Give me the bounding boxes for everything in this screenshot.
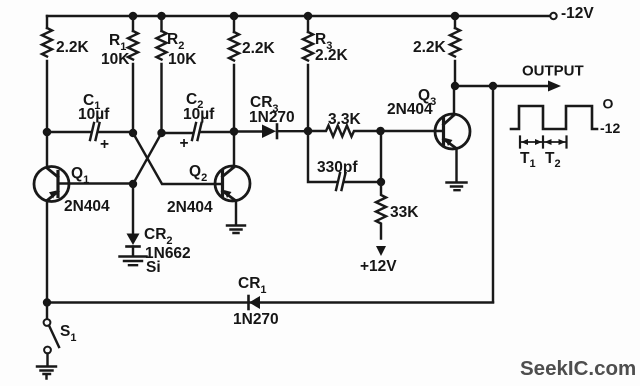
label T2 <box>545 150 561 170</box>
wire 330pf branch left <box>308 131 336 182</box>
diode CR3 1N270 <box>262 125 277 139</box>
resistor R1 10K <box>128 31 138 60</box>
label 1N270 <box>249 109 295 126</box>
svg-text:10K: 10K <box>168 51 197 68</box>
wire output <box>455 85 549 87</box>
wire Q1 emitter down <box>46 201 48 304</box>
label CR3 <box>250 94 279 115</box>
resistor 2.2K (Q2 collector) <box>229 32 239 61</box>
label 10uf <box>183 106 215 123</box>
svg-text:O: O <box>603 96 614 112</box>
capacitor C2 wire right <box>201 131 235 133</box>
capacitor 330pf plates <box>336 173 346 190</box>
wire CR3 left <box>234 130 262 132</box>
label -12 (low level) <box>600 120 620 136</box>
arrow to +12V <box>376 246 386 256</box>
label Q2 <box>189 163 207 184</box>
svg-text:10µf: 10µf <box>183 106 215 123</box>
resistor 2.2K (Q3 collector) <box>450 28 460 57</box>
terminal -12V <box>550 13 556 19</box>
diode CR1 1N270 <box>249 296 261 309</box>
capacitor C1 wire right <box>99 131 133 133</box>
dimension T1 T2 ticks <box>520 137 567 148</box>
capacitor C2 plates <box>192 123 202 140</box>
transistor Q3 <box>435 114 470 149</box>
svg-text:-12: -12 <box>600 120 620 136</box>
wire bottom CR1 line <box>47 301 493 303</box>
label Q3 <box>418 87 436 108</box>
label 2N404 <box>167 199 213 216</box>
svg-text:2.2K: 2.2K <box>315 47 349 64</box>
wire top supply rail <box>47 15 551 17</box>
svg-text:1N270: 1N270 <box>249 109 295 126</box>
svg-text:2N404: 2N404 <box>64 198 110 215</box>
svg-text:+: + <box>100 136 109 153</box>
svg-text:2.2K: 2.2K <box>242 40 276 57</box>
wire Q3 emitter <box>455 149 457 183</box>
svg-text:T1: T1 <box>520 150 536 170</box>
label 2.2K <box>56 39 90 56</box>
label 10uf <box>78 106 110 123</box>
label O (zero level) <box>603 96 614 112</box>
node Q1 emitter bottom junction <box>43 298 51 306</box>
wire 2.2K Q3 top <box>454 16 456 28</box>
wire CR3 right <box>277 130 308 132</box>
waveform square wave <box>511 106 597 129</box>
switch S1 <box>44 303 59 367</box>
wire cross-coupling R1 to Q2 base <box>133 133 222 184</box>
wire 2.2K to Q2 collector <box>233 65 235 167</box>
svg-text:CR2: CR2 <box>144 226 173 247</box>
wire R1 top <box>132 16 134 31</box>
arrow output <box>548 81 561 92</box>
resistor R3 2.2K <box>303 32 313 61</box>
node R2 bottom junction <box>157 129 165 137</box>
label 2.2K <box>413 39 447 56</box>
label + polarity C2 <box>180 135 189 152</box>
label Q1 <box>71 165 89 186</box>
capacitor C1 wire left <box>47 131 91 133</box>
label + polarity C1 <box>100 136 109 153</box>
node junction top 2.2K Q3 <box>451 12 460 21</box>
label T1 <box>520 150 536 170</box>
wire 2.2K Q2 top <box>233 16 235 32</box>
label R1 <box>109 32 126 53</box>
svg-text:2N404: 2N404 <box>387 101 433 118</box>
svg-text:2N404: 2N404 <box>167 199 213 216</box>
label C2 <box>186 91 203 111</box>
svg-text:2.2K: 2.2K <box>56 39 90 56</box>
wire 330pf branch right <box>345 131 381 182</box>
label R2 <box>167 31 184 52</box>
svg-text:1N270: 1N270 <box>233 311 279 328</box>
wire R3 bottom <box>307 65 309 131</box>
label 1N270 <box>233 311 279 328</box>
node output feedback junction <box>489 82 497 90</box>
node junction top R3 <box>304 12 313 21</box>
resistor 2.2K (Q1 collector) <box>42 28 52 57</box>
node C1 right junction <box>129 129 137 137</box>
svg-text:CR1: CR1 <box>238 275 267 296</box>
wire cross-coupling R2 to Q1 base node <box>133 133 162 184</box>
svg-text:3.3K: 3.3K <box>328 111 362 128</box>
svg-text:Q2: Q2 <box>189 163 207 184</box>
capacitor C2 wire left <box>162 132 193 134</box>
svg-text:S1: S1 <box>60 323 76 344</box>
wire Q1 base <box>58 182 133 184</box>
resistor 3.3K <box>308 126 377 137</box>
diode CR2 1N662 <box>127 234 140 256</box>
resistor R2 10K <box>157 31 167 60</box>
label 10K <box>101 51 130 68</box>
node R3 bottom junction <box>304 127 313 136</box>
node junction top R1 <box>129 12 138 21</box>
resistor 33K <box>376 182 386 238</box>
node C2 right junction <box>230 127 239 136</box>
label 2N404 <box>387 101 433 118</box>
node 330pf 33K junction <box>377 178 385 186</box>
label 2.2K <box>242 40 276 57</box>
wire R3 top <box>307 16 309 32</box>
wire CR2 from Q1 base node <box>132 184 134 233</box>
wire feedback vertical <box>492 86 494 302</box>
transistor Q1 <box>34 167 69 202</box>
label C1 <box>83 92 100 112</box>
label Si <box>146 259 161 276</box>
svg-text:+12V: +12V <box>360 258 397 275</box>
node Q1 base junction <box>129 180 137 188</box>
transistor Q2 <box>215 166 250 201</box>
node output collector junction <box>451 82 459 90</box>
svg-text:33K: 33K <box>390 204 419 221</box>
label -12V <box>561 5 594 22</box>
svg-text:2.2K: 2.2K <box>413 39 447 56</box>
ground S1 <box>37 367 56 379</box>
wire left branch down from rail <box>46 16 48 28</box>
label 2N404 <box>64 198 110 215</box>
svg-text:R2: R2 <box>167 31 184 52</box>
ground Q3 <box>447 183 467 191</box>
svg-text:10K: 10K <box>101 51 130 68</box>
wire R1 bottom <box>132 64 134 133</box>
wire R2 bottom <box>160 64 162 133</box>
svg-text:R1: R1 <box>109 32 126 53</box>
label 330pf <box>317 159 358 176</box>
svg-text:+: + <box>180 135 189 152</box>
label S1 <box>60 323 76 344</box>
wire Q2 emitter down <box>235 201 237 226</box>
wire to Q3 base <box>381 130 444 132</box>
label 1N662 <box>145 245 191 262</box>
label OUTPUT <box>522 63 584 80</box>
node junction top R2 <box>157 12 166 21</box>
svg-text:10µf: 10µf <box>78 106 110 123</box>
label +12V <box>360 258 397 275</box>
wire 2.2K to output node <box>454 61 456 86</box>
label R3 <box>315 31 332 52</box>
label CR2 <box>144 226 173 247</box>
node 3.3K right junction <box>376 127 385 136</box>
dimension arrows <box>520 139 567 145</box>
label 10K <box>168 51 197 68</box>
wire R2 top <box>160 16 162 31</box>
node junction top 2.2K Q2 <box>230 12 239 21</box>
svg-text:Si: Si <box>146 259 161 276</box>
ground CR2 <box>120 257 147 266</box>
svg-text:OUTPUT: OUTPUT <box>522 63 584 80</box>
ground Q2 <box>227 226 245 234</box>
capacitor C1 plates <box>90 123 100 140</box>
svg-text:330pf: 330pf <box>317 159 358 176</box>
label CR1 <box>238 275 267 296</box>
wire Q3 collector <box>453 86 455 115</box>
label 3.3K <box>328 111 362 128</box>
node C1 left junction <box>43 128 52 137</box>
svg-text:T2: T2 <box>545 150 561 170</box>
label 2.2K <box>315 47 349 64</box>
svg-text:-12V: -12V <box>561 5 594 22</box>
svg-text:SeekIC.com: SeekIC.com <box>520 357 636 380</box>
wire 2.2K to Q1 collector <box>46 61 48 167</box>
watermark SeekIC.com <box>520 357 636 380</box>
label 33K <box>390 204 419 221</box>
